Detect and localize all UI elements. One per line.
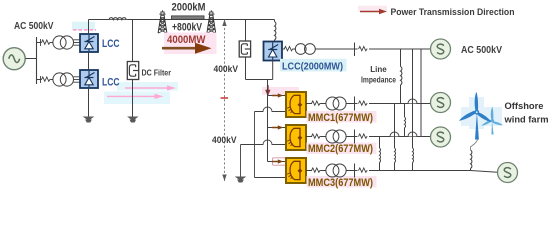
wire G1 to bus	[26, 58, 37, 60]
junction tick MMC3 row	[354, 164, 356, 178]
label MMC2 highlight	[307, 143, 377, 155]
impedance Z2	[42, 77, 51, 81]
DC line bundle bar	[172, 16, 205, 19]
transformer T6	[326, 164, 339, 177]
bus A (MMC positive feeder)	[267, 80, 269, 162]
impedance MMC2 row	[358, 133, 370, 140]
tower 1	[158, 10, 167, 33]
wire LCC1 to LCC2	[88, 52, 90, 70]
impedance MMC3 row	[358, 167, 370, 174]
svg-text:MMC1(677MW): MMC1(677MW)	[308, 112, 373, 124]
wind turbine small	[481, 107, 503, 135]
dashed dimension line 400kV	[224, 20, 226, 182]
AC source row3 (wind)	[498, 163, 518, 183]
annotation pink highlight 4000MW	[164, 33, 217, 55]
MMC3 minus wire	[255, 177, 287, 179]
V5 row1 to row2 with coil	[404, 104, 406, 118]
DC filter F2	[239, 41, 250, 57]
hop on row1 at V2	[408, 99, 417, 104]
wind turbine glow background	[469, 97, 484, 129]
wire T3 to tick	[315, 48, 431, 50]
impedance Z1	[42, 40, 51, 44]
V6 row2 to row3 with coil	[379, 137, 381, 149]
wire Z2 to T2	[50, 79, 53, 81]
impedance LCC row 2	[358, 45, 370, 52]
svg-text:Line: Line	[370, 64, 387, 74]
transformer T5	[326, 130, 339, 143]
ground (MMC neutral)	[235, 177, 247, 183]
busbar (left)	[36, 37, 38, 84]
converter MMC1	[286, 92, 306, 117]
transformer T4	[326, 97, 339, 110]
svg-text:400kV: 400kV	[214, 64, 239, 75]
svg-text:400kV: 400kV	[212, 135, 237, 146]
svg-text:4000MW: 4000MW	[167, 34, 206, 46]
wire turbine drop + coil	[471, 139, 478, 150]
AC source G1 (left AC 500kV grid)	[3, 48, 25, 70]
AC source right top	[431, 39, 451, 59]
MMC1 AC row	[306, 103, 312, 105]
wire LCC3 to midpoint	[272, 61, 274, 80]
impedance MMC1 row	[358, 100, 370, 107]
transformer T1	[53, 36, 66, 49]
transformer T2	[53, 73, 66, 86]
V3 top to row2	[420, 49, 422, 137]
svg-text:Power Transmission Direction: Power Transmission Direction	[391, 7, 515, 18]
AC source row2	[431, 127, 451, 147]
MMC3 AC row	[306, 170, 312, 172]
V4 row1 to row3 with coil	[394, 104, 396, 149]
bus B (MMC negative collector)	[254, 112, 256, 178]
arrow power flow 4000MW	[162, 43, 212, 54]
svg-text:Offshore: Offshore	[505, 101, 544, 112]
label MMC1 highlight	[307, 111, 377, 123]
svg-text:+800kV: +800kV	[172, 21, 203, 33]
svg-text:wind farm: wind farm	[504, 115, 549, 126]
svg-text:AC 500kV: AC 500kV	[461, 45, 502, 56]
annotation pink dashes above LCC1	[73, 29, 96, 31]
wire LCC2 to ground	[88, 88, 90, 117]
AC source row1	[431, 93, 451, 113]
ground (LCC neutral)	[83, 117, 95, 123]
svg-text:DC Filter: DC Filter	[142, 67, 172, 77]
DC line +800kV	[89, 19, 275, 21]
V1 line impedance branch	[400, 49, 402, 67]
svg-text:MMC3(677MW): MMC3(677MW)	[308, 177, 373, 189]
svg-text:2000kM: 2000kM	[172, 2, 206, 14]
junction tick row B	[40, 76, 42, 83]
converter MMC2	[286, 125, 306, 150]
svg-text:LCC: LCC	[102, 76, 120, 88]
wire midpoint bus	[246, 79, 268, 81]
wire triple T2 to LCC2	[74, 76, 81, 78]
annotation cyan highlight above LCC1	[72, 22, 95, 31]
annotation cyan highlight LCC(2000MW)	[280, 59, 347, 72]
hop on row2 at V4	[390, 132, 399, 137]
ground drop (MMC neutral)	[240, 145, 242, 177]
svg-text:AC 500kV: AC 500kV	[14, 21, 54, 32]
legend pink highlight	[358, 6, 387, 12]
wire triple T1 to LCC1	[74, 39, 81, 41]
svg-text:LCC: LCC	[102, 38, 120, 50]
MMC2 minus wire with hop	[241, 140, 287, 145]
stub MMC1 plus + orange arrow	[268, 95, 287, 97]
svg-text:Impedance: Impedance	[361, 75, 396, 85]
dimension red tick	[221, 97, 229, 99]
impedance LCC row	[284, 46, 293, 50]
annotation pink arrow 2	[107, 94, 164, 99]
junction tick row A	[40, 39, 42, 46]
wire Z1 to T1	[50, 42, 53, 44]
hop on row2 at V2	[408, 132, 417, 137]
stub MMC3 plus + orange arrow	[268, 161, 287, 163]
svg-text:MMC2(677MW): MMC2(677MW)	[308, 143, 373, 155]
junction tick LCC row	[354, 43, 356, 57]
DC filter F1	[127, 62, 138, 80]
junction tick MMC1 row	[354, 97, 356, 111]
wire DC filter F2 drop	[245, 20, 247, 42]
MMC1 minus wire with hop	[255, 107, 287, 112]
wire DC filter F1 drop	[132, 20, 134, 62]
wire row A from bus	[37, 42, 42, 44]
converter LCC3 (2000MW)	[264, 42, 283, 61]
wire LCC1 top to DC line	[88, 20, 90, 35]
converter LCC2	[80, 70, 98, 88]
annotation pink arrow 1	[125, 85, 176, 90]
converter LCC1	[80, 34, 98, 52]
annotation cyan box (faded) lower	[104, 92, 170, 105]
red arrow DC current down	[265, 85, 270, 96]
junction tick MMC2 row	[354, 130, 356, 144]
annotation pink strip at MMC feeder	[262, 87, 299, 95]
tower 2	[207, 10, 216, 33]
label MMC3 highlight	[307, 176, 377, 188]
ground (DC filter)	[127, 117, 139, 123]
smoothing reactor L0 (sending end)	[109, 15, 128, 20]
converter MMC3	[286, 158, 306, 183]
stub MMC2 plus + orange arrow	[268, 127, 287, 129]
legend red arrow	[360, 9, 387, 14]
MMC2 AC row	[306, 136, 312, 138]
transformer T3 (LCC)	[295, 44, 306, 55]
wind turbine main	[459, 92, 491, 140]
annotation cyan box (faded) upper	[117, 82, 178, 91]
svg-text:LCC(2000MW): LCC(2000MW)	[282, 62, 343, 73]
V2 top to row3 with coil	[412, 49, 414, 148]
smoothing reactor L1	[274, 20, 276, 22]
LCC AC row: wire	[282, 48, 285, 50]
wire row B from bus	[37, 79, 42, 81]
